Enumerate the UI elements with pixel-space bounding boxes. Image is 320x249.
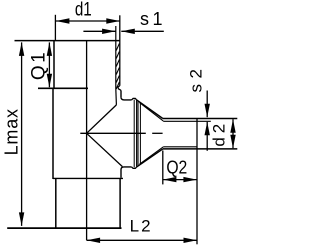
svg-text:Q2: Q2 [166,156,187,178]
svg-text:Lmax: Lmax [1,108,21,155]
svg-text:L2: L2 [130,216,153,235]
svg-text:s2: s2 [187,64,206,93]
svg-text:d1: d1 [75,0,92,20]
svg-text:Q1: Q1 [28,50,49,80]
svg-text:s1: s1 [140,9,166,29]
svg-text:d2: d2 [209,120,228,147]
